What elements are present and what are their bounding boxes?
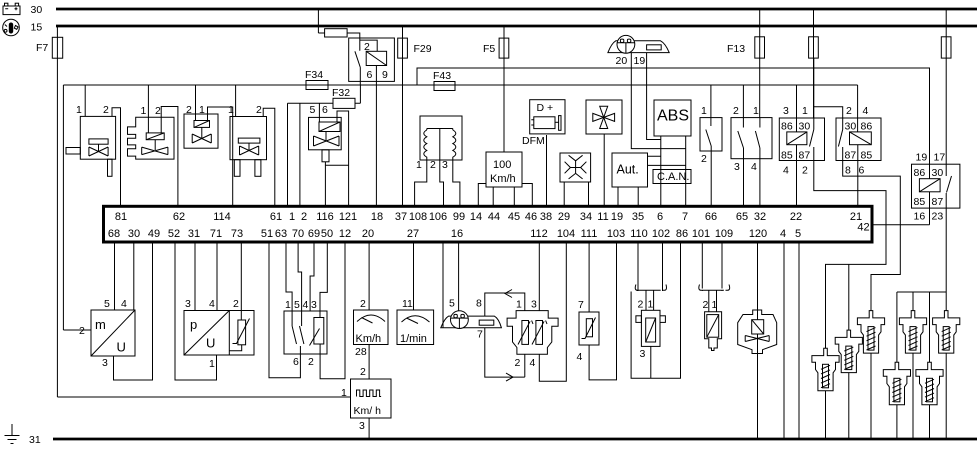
- svg-text:Km/ h: Km/ h: [354, 405, 382, 417]
- svg-text:86: 86: [861, 121, 873, 133]
- wire valve N4 pin2 to ECU 61: [263, 108, 275, 206]
- wire glow relay outputs to plug rail: [897, 208, 946, 362]
- wire ECU 111 to fuel temp sensor pin7: [588, 244, 590, 313]
- svg-text:8: 8: [476, 298, 482, 310]
- svg-text:F34: F34: [305, 69, 323, 81]
- svg-text:11: 11: [402, 298, 413, 310]
- fuse F13: [759, 9, 761, 118]
- wire ECU 63 to brake switch pin1: [286, 244, 292, 312]
- wire pedal pin2 down: [524, 354, 526, 377]
- wire ECU 5 to ground: [798, 244, 800, 440]
- svg-text:51: 51: [261, 228, 273, 240]
- svg-text:D +: D +: [537, 102, 554, 114]
- wire valve N4 pin1 supply: [235, 85, 237, 117]
- svg-text:1: 1: [209, 358, 215, 370]
- bus 15: [56, 25, 977, 28]
- svg-text:1: 1: [802, 105, 808, 117]
- svg-text:F5: F5: [483, 43, 495, 55]
- svg-text:p: p: [190, 317, 197, 332]
- svg-text:121: 121: [339, 211, 357, 223]
- svg-text:29: 29: [558, 211, 570, 223]
- svg-text:7: 7: [578, 299, 584, 311]
- wire supply rail y85: [63, 84, 857, 86]
- svg-text:2: 2: [733, 105, 739, 117]
- svg-text:28: 28: [355, 346, 367, 358]
- svg-text:F29: F29: [414, 43, 432, 55]
- wire ECU 49 to G70 pin3: [114, 244, 153, 381]
- svg-text:104: 104: [557, 228, 575, 240]
- wire pedal pin4 to ECU 104: [539, 244, 566, 382]
- fuse F29: [402, 26, 404, 206]
- wire N146 pin2 to ECU 106: [440, 160, 444, 206]
- svg-text:19: 19: [916, 152, 928, 164]
- svg-text:71: 71: [210, 228, 222, 240]
- svg-text:20: 20: [362, 228, 374, 240]
- svg-text:3: 3: [185, 298, 191, 310]
- wire ECU 4 to ground: [783, 244, 785, 440]
- wire ECU 109 to crank sensor: [721, 244, 723, 289]
- svg-text:100: 100: [493, 159, 511, 171]
- wire ECU 52 to G31 pin1: [175, 244, 217, 381]
- instrument cluster symbol top: [608, 35, 669, 53]
- svg-text:1: 1: [416, 159, 422, 171]
- wire ECU pins 1,2 to valve5 feed: [288, 103, 300, 206]
- wires 100km/h to ECU 14,44,45,46: [478, 184, 532, 207]
- svg-text:1: 1: [289, 211, 295, 223]
- svg-text:87: 87: [932, 196, 944, 208]
- svg-text:3: 3: [102, 357, 108, 369]
- wire ECU pin42 to glow relay 16: [872, 224, 930, 226]
- svg-text:2: 2: [360, 298, 366, 310]
- svg-text:3: 3: [442, 159, 448, 171]
- svg-text:2: 2: [515, 357, 521, 369]
- CAN bus box: [653, 170, 691, 184]
- fuse F5: [503, 26, 505, 152]
- brake pedal switch block F F47: [284, 311, 327, 354]
- wire speedometer to road speed sender: [368, 345, 370, 380]
- svg-text:23: 23: [932, 211, 944, 223]
- wire fuel temp pin4 to ECU 103: [589, 244, 616, 380]
- fuse F7: [56, 26, 58, 397]
- svg-text:116: 116: [316, 211, 334, 223]
- svg-text:22: 22: [790, 211, 802, 223]
- svg-text:2: 2: [155, 105, 161, 117]
- svg-text:1/min: 1/min: [400, 333, 427, 345]
- svg-text:4: 4: [121, 298, 127, 310]
- svg-text:14: 14: [470, 211, 482, 223]
- svg-text:4: 4: [209, 298, 215, 310]
- wire ECU 20 to speedometer: [368, 244, 370, 311]
- svg-text:103: 103: [607, 228, 625, 240]
- wire ECU to cluster2 left corner: [442, 244, 444, 328]
- svg-text:1: 1: [141, 105, 147, 117]
- svg-text:F43: F43: [433, 70, 451, 82]
- wire valve N2 pin1 supply: [147, 85, 149, 133]
- svg-text:1: 1: [285, 299, 291, 311]
- svg-text:1: 1: [712, 299, 718, 311]
- svg-text:2: 2: [701, 153, 707, 165]
- svg-text:8: 8: [845, 165, 851, 177]
- svg-text:2: 2: [638, 299, 644, 311]
- alternator D+ DFM: [530, 100, 565, 134]
- svg-text:7: 7: [682, 211, 688, 223]
- svg-text:30: 30: [31, 4, 43, 16]
- bus 30: [56, 8, 977, 11]
- svg-text:85: 85: [781, 150, 793, 162]
- svg-text:6: 6: [859, 165, 865, 177]
- svg-text:C.A.N.: C.A.N.: [657, 171, 689, 183]
- wires Aut to net: [648, 156, 686, 165]
- svg-text:4: 4: [783, 165, 789, 177]
- svg-text:Km/h: Km/h: [490, 173, 516, 185]
- instrument cluster symbol bottom: [441, 311, 502, 329]
- svg-text:102: 102: [652, 228, 670, 240]
- ABS control unit: [654, 100, 691, 136]
- svg-text:30: 30: [932, 167, 944, 179]
- svg-text:16: 16: [451, 228, 463, 240]
- wire ECU 71 to G31 pin4: [216, 244, 218, 311]
- svg-text:2: 2: [233, 298, 239, 310]
- svg-text:4: 4: [303, 299, 309, 311]
- svg-text:62: 62: [173, 211, 185, 223]
- svg-text:69: 69: [308, 228, 320, 240]
- fuse F34: [306, 81, 328, 90]
- svg-text:Aut.: Aut.: [617, 163, 639, 177]
- wire D+ to ECU 38: [546, 135, 548, 206]
- wire valve N1 pin1 supply: [84, 85, 86, 116]
- svg-text:44: 44: [488, 211, 500, 223]
- svg-text:U: U: [206, 336, 215, 351]
- wire valve N3 pin1 to ECU 114: [208, 107, 233, 206]
- svg-text:3: 3: [640, 348, 646, 360]
- svg-text:2: 2: [308, 356, 314, 368]
- svg-text:6: 6: [293, 356, 299, 368]
- svg-text:18: 18: [371, 211, 383, 223]
- svg-text:31: 31: [188, 228, 200, 240]
- svg-text:2: 2: [430, 159, 436, 171]
- svg-text:19: 19: [611, 211, 623, 223]
- wire ECU 86 to shield foot: [680, 244, 682, 379]
- svg-text:15: 15: [31, 22, 43, 34]
- wire cluster pin19 down to CAN net: [647, 53, 661, 140]
- glow plug Q2: [835, 330, 862, 439]
- svg-text:3: 3: [531, 299, 537, 311]
- svg-text:108: 108: [409, 211, 427, 223]
- svg-text:3: 3: [359, 420, 365, 432]
- fuse 30-feed 3 (unlabeled): [945, 9, 947, 164]
- relay J317 supply relay: [349, 38, 395, 85]
- automatic gearbox box Aut.: [612, 153, 648, 187]
- svg-text:5: 5: [294, 299, 300, 311]
- wire N146 pin3 to ECU 99: [453, 160, 460, 206]
- speedometer Km/h: [354, 310, 389, 345]
- svg-text:120: 120: [749, 228, 767, 240]
- wire road speed sender to ground: [368, 418, 370, 439]
- wire ECU 68 to G70 pin5: [114, 244, 116, 311]
- svg-text:112: 112: [530, 228, 548, 240]
- glow plug Q7: [933, 311, 960, 439]
- wire N146 pin1 to ECU 108: [415, 160, 427, 206]
- fan symbol box: [586, 100, 622, 134]
- needle lift sender G80 shield: [631, 285, 680, 379]
- switch F clutch: [700, 85, 722, 206]
- svg-text:4: 4: [780, 228, 786, 240]
- svg-text:12: 12: [339, 228, 351, 240]
- wire relay1 pin2 to glow feed W1: [814, 161, 886, 349]
- svg-text:1: 1: [701, 105, 707, 117]
- ECU connector box J248: [104, 206, 873, 242]
- speed limit box 100 Km/h: [486, 152, 522, 187]
- air mass meter G70: [63, 85, 135, 356]
- svg-text:86: 86: [781, 121, 793, 133]
- svg-text:1: 1: [516, 299, 522, 311]
- glow plug Q1: [812, 348, 839, 439]
- ignition switch symbol: [3, 19, 20, 36]
- svg-text:2: 2: [846, 105, 852, 117]
- valve N2 solenoid: [128, 117, 175, 159]
- fuse F43: [434, 82, 455, 91]
- svg-text:45: 45: [508, 211, 520, 223]
- svg-text:34: 34: [580, 211, 592, 223]
- wire valve N1 pin2 to ECU 81: [112, 108, 121, 207]
- relay 1: [779, 58, 824, 206]
- battery symbol: [3, 3, 20, 14]
- svg-text:1: 1: [76, 104, 82, 116]
- wire brake switch pin6 to ECU 51: [269, 244, 300, 378]
- wire ECU 101 to crank sensor: [701, 244, 703, 289]
- relay 2: [836, 85, 881, 206]
- svg-text:2: 2: [103, 104, 109, 116]
- svg-text:F32: F32: [332, 87, 350, 99]
- svg-text:2: 2: [256, 104, 262, 116]
- svg-text:66: 66: [705, 211, 717, 223]
- wire ECU 112 to pedal pin3: [538, 244, 540, 311]
- svg-text:30: 30: [128, 228, 140, 240]
- svg-text:2: 2: [703, 299, 709, 311]
- glow plug Q5: [899, 311, 926, 439]
- svg-text:2: 2: [301, 211, 307, 223]
- svg-text:5: 5: [104, 298, 110, 310]
- wire ECU 120 through EGR valve to ground: [757, 244, 759, 440]
- svg-text:68: 68: [108, 228, 120, 240]
- svg-text:2: 2: [360, 366, 366, 378]
- svg-text:30: 30: [845, 121, 857, 133]
- svg-text:50: 50: [321, 228, 333, 240]
- svg-text:F13: F13: [727, 43, 745, 55]
- svg-text:87: 87: [799, 150, 811, 162]
- switch block cruise control: [731, 85, 772, 206]
- wire ECU 16 to cluster2 pin5: [458, 244, 460, 312]
- svg-text:32: 32: [754, 211, 766, 223]
- svg-text:3: 3: [311, 299, 317, 311]
- wire fuse2 to relay2 contact: [814, 107, 843, 118]
- svg-text:2: 2: [186, 104, 192, 116]
- wire relay2 pin8 to glow feed W2: [843, 161, 901, 311]
- valve N4 solenoid: [230, 117, 267, 177]
- EGR valve N18: [738, 310, 777, 354]
- svg-text:42: 42: [857, 222, 869, 234]
- svg-text:63: 63: [275, 228, 287, 240]
- fuse 30-feed top (unlabeled): [318, 9, 359, 38]
- svg-text:61: 61: [270, 211, 282, 223]
- svg-text:6: 6: [657, 211, 663, 223]
- svg-text:4: 4: [751, 161, 757, 173]
- svg-text:46: 46: [525, 211, 537, 223]
- wire cluster2 pin8 arrow to pedal pin1: [485, 293, 525, 316]
- svg-text:73: 73: [231, 228, 243, 240]
- svg-text:27: 27: [407, 228, 419, 240]
- crank sensor G28: [699, 285, 730, 351]
- svg-text:6: 6: [367, 69, 373, 81]
- road speed sender Km/h: [351, 379, 392, 418]
- svg-text:86: 86: [914, 167, 926, 179]
- svg-text:5: 5: [310, 104, 316, 116]
- ECU top row pin labels: [115, 211, 870, 234]
- svg-text:5: 5: [449, 298, 455, 310]
- svg-text:106: 106: [429, 211, 447, 223]
- wire valve N5 pin6 to ECU 116,121: [325, 111, 348, 206]
- valve N5 solenoid: [309, 117, 342, 165]
- svg-text:17: 17: [934, 152, 946, 164]
- svg-text:3: 3: [783, 105, 789, 117]
- svg-text:2: 2: [364, 41, 370, 53]
- tachometer 1/min: [397, 310, 434, 345]
- fuel temperature sensor G81: [579, 312, 599, 345]
- svg-text:85: 85: [914, 196, 926, 208]
- wire brake switch pin2 to ECU 12: [320, 244, 345, 379]
- svg-text:4: 4: [530, 357, 536, 369]
- svg-text:11: 11: [597, 211, 608, 223]
- svg-text:99: 99: [453, 211, 465, 223]
- svg-text:U: U: [117, 340, 126, 355]
- wires snowflake to ECU 29,34: [564, 182, 588, 206]
- svg-text:3: 3: [734, 161, 740, 173]
- svg-text:20: 20: [616, 55, 628, 67]
- svg-text:m: m: [95, 317, 106, 332]
- svg-text:49: 49: [148, 228, 160, 240]
- wire valve N2 pin2 to ECU 62: [161, 107, 178, 207]
- svg-text:1: 1: [341, 387, 347, 399]
- fuse F32: [288, 85, 361, 122]
- svg-text:F7: F7: [36, 42, 48, 54]
- wire ECU 31 to G31 pin3: [194, 244, 196, 311]
- bus 31 ground: [53, 438, 977, 441]
- accelerator pedal sender G79 G185: [507, 311, 558, 355]
- wire F7 to road speed sender pin1: [57, 396, 350, 398]
- valve N3 solenoid: [184, 114, 218, 148]
- svg-text:1: 1: [199, 104, 205, 116]
- wire fan to ECU 11: [603, 134, 605, 206]
- svg-text:4: 4: [863, 105, 869, 117]
- svg-text:4: 4: [577, 351, 583, 363]
- wire relay pin9 to ECU pin 18: [375, 81, 377, 206]
- svg-text:1: 1: [228, 104, 234, 116]
- svg-text:6: 6: [322, 104, 328, 116]
- svg-text:86: 86: [676, 228, 688, 240]
- glow plug relay: [912, 164, 960, 208]
- svg-text:114: 114: [213, 211, 231, 223]
- ECU bottom row pin labels: [108, 228, 801, 240]
- svg-text:31: 31: [29, 434, 41, 446]
- svg-text:65: 65: [736, 211, 748, 223]
- svg-text:2: 2: [802, 165, 808, 177]
- wire cluster2 pin7 arrow to pedal pin2: [485, 328, 525, 377]
- svg-text:1: 1: [648, 299, 654, 311]
- wire ECU 110 to needle lift shield: [637, 244, 639, 292]
- wire ECU 30 to G70 pin4: [133, 244, 135, 311]
- svg-text:19: 19: [634, 55, 646, 67]
- glow plug Q3: [857, 311, 884, 439]
- svg-text:DFM: DFM: [522, 135, 545, 147]
- wires Aut to ECU 19,35: [618, 187, 638, 206]
- fuse 30-feed 2 (unlabeled): [813, 9, 815, 118]
- glow plug Q4: [883, 362, 910, 439]
- svg-text:81: 81: [115, 211, 127, 223]
- svg-text:5: 5: [795, 228, 801, 240]
- wire ECU 69 to brake switch pin4: [310, 244, 314, 312]
- svg-text:109: 109: [715, 228, 733, 240]
- glow plug Q6: [916, 362, 943, 439]
- wire y68 line cluster feed: [417, 68, 930, 164]
- svg-text:111: 111: [581, 228, 598, 240]
- wire ECU 73 to G31 pin2: [240, 244, 242, 321]
- ground symbol: [5, 424, 20, 444]
- svg-text:37: 37: [395, 211, 407, 223]
- boost pressure sensor G31: [184, 311, 254, 356]
- svg-text:85: 85: [861, 150, 873, 162]
- needle lift sender G80: [636, 290, 666, 378]
- wire ECU 50 to brake switch pin3: [320, 244, 327, 312]
- svg-text:7: 7: [477, 329, 483, 341]
- svg-text:2: 2: [79, 325, 85, 337]
- svg-text:16: 16: [914, 211, 926, 223]
- svg-text:30: 30: [799, 121, 811, 133]
- quantity adjuster N146: [420, 116, 462, 160]
- svg-text:1: 1: [753, 105, 759, 117]
- svg-text:9: 9: [382, 69, 388, 81]
- svg-text:38: 38: [540, 211, 552, 223]
- svg-text:35: 35: [632, 211, 644, 223]
- svg-text:52: 52: [168, 228, 180, 240]
- svg-text:ABS: ABS: [657, 108, 689, 125]
- wire ECU 27 to tachometer: [413, 244, 415, 311]
- AC compressor snowflake box: [560, 153, 591, 182]
- svg-text:110: 110: [630, 228, 648, 240]
- svg-text:87: 87: [845, 150, 857, 162]
- svg-text:Km/h: Km/h: [356, 333, 382, 345]
- wire cluster pin20 down to CAN net: [631, 53, 685, 149]
- wires ABS CAN ECU 6,7: [661, 136, 686, 206]
- wire ECU 102 to needle lift shield: [662, 244, 664, 292]
- svg-text:70: 70: [292, 228, 304, 240]
- valve N1 solenoid: [66, 116, 116, 176]
- svg-text:101: 101: [692, 228, 710, 240]
- wire valve N3 pin2 supply: [195, 85, 197, 121]
- wire ECU 70 to brake switch pin5: [298, 244, 302, 312]
